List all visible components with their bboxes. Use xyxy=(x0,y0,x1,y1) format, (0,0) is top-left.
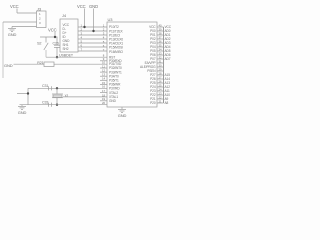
IC U3 right pin 32 P07 xyxy=(157,58,164,60)
svg-text:C26: C26 xyxy=(53,41,59,45)
wire VCC drop xyxy=(16,9,18,14)
wire caps join vertical xyxy=(27,88,29,104)
IC U3 right pin 27 P26 xyxy=(157,78,164,80)
IC U3 right pin 24 P23 xyxy=(157,90,164,92)
svg-text:GND: GND xyxy=(109,99,117,103)
wire GND to R21 xyxy=(14,63,45,65)
wire U3 GND pin 20 xyxy=(121,107,123,109)
IC U3 right pin 40 VCC xyxy=(157,26,164,28)
svg-text:VCC: VCC xyxy=(10,4,19,9)
IC U3 right pin 31 EA/VPP xyxy=(157,62,164,64)
IC U3 right pin 25 P24 xyxy=(157,86,164,88)
connector J4 body xyxy=(60,19,78,52)
svg-text:P20: P20 xyxy=(150,101,156,105)
IC U3 right pin 22 P21 xyxy=(157,98,164,100)
IC U3 right pin 30 ALE/PROG xyxy=(157,66,164,68)
junction (gnd branch) xyxy=(27,92,29,94)
wire XTAL2 row xyxy=(28,87,107,89)
svg-text:GND: GND xyxy=(118,113,127,118)
IC U3 left pin 17 XTAL2 xyxy=(100,92,107,94)
svg-text:A8: A8 xyxy=(165,101,169,105)
IC U3 left pin 9 P30/RXD xyxy=(100,60,107,62)
junction (crystal bottom) xyxy=(56,104,58,106)
ground (J3) xyxy=(8,29,16,32)
junction (VCC / J4) xyxy=(83,26,85,28)
svg-text:SH2: SH2 xyxy=(63,47,69,51)
svg-text:AD7: AD7 xyxy=(165,57,171,61)
IC U3 right pin 29 PSEN xyxy=(157,70,164,72)
IC U3 right pin 37 P02 xyxy=(157,38,164,40)
wire drop to ground (J3) xyxy=(11,27,13,29)
junction (VCC / reset top) xyxy=(54,36,56,38)
svg-text:S2: S2 xyxy=(37,42,41,46)
junction (RST node) xyxy=(56,56,58,58)
svg-text:VCC: VCC xyxy=(77,4,86,9)
IC U3 right pin 33 P06 xyxy=(157,54,164,56)
connector J3 body xyxy=(37,11,47,28)
IC U3 left pin 11 P32/INT0 xyxy=(100,67,107,69)
crystal X1 xyxy=(56,88,58,94)
IC U3 left pin 15 P36/WR xyxy=(100,83,107,85)
svg-text:GND: GND xyxy=(4,63,13,68)
IC U3 right pin 26 P25 xyxy=(157,82,164,84)
svg-text:U3: U3 xyxy=(108,17,114,22)
IC U3 right pin 39 P00 xyxy=(157,30,164,32)
IC U3 right pin 28 P27 xyxy=(157,74,164,76)
junction (crystal top) xyxy=(56,87,58,89)
wire to J3 pin 3 xyxy=(12,26,37,28)
wire gnd branch xyxy=(17,93,28,95)
wire VCC to J4 row 1 xyxy=(84,9,86,28)
IC U3 left pin 14 P35/T1 xyxy=(100,79,107,81)
IC U3 right pin 36 P03 xyxy=(157,42,164,44)
IC U3 right pin 34 P05 xyxy=(157,50,164,52)
wire to J3 pin 1 xyxy=(17,12,37,14)
wire C33/ground row xyxy=(20,104,108,106)
wire VCC drop (reset) xyxy=(54,32,56,37)
svg-text:USBDET: USBDET xyxy=(59,53,74,57)
wire GND to J4 row 2 xyxy=(93,9,95,32)
ground (crystal) xyxy=(21,105,23,107)
svg-text:C31: C31 xyxy=(42,84,48,88)
bus (right of U3) xyxy=(163,27,165,103)
svg-text:P16/MISO: P16/MISO xyxy=(109,50,124,54)
svg-text:GND: GND xyxy=(89,4,98,9)
IC U3 left pin 12 P33/INT1 xyxy=(100,71,107,73)
IC U3 right pin 23 P22 xyxy=(157,94,164,96)
wire R21 to U3 (row 10) xyxy=(54,63,107,65)
ground (U3) xyxy=(118,110,126,113)
svg-text:GND: GND xyxy=(8,32,17,37)
svg-text:R21: R21 xyxy=(37,61,43,65)
svg-text:20: 20 xyxy=(102,101,106,105)
IC U3 body xyxy=(107,22,157,107)
wire to J3 pin 2 xyxy=(3,21,37,23)
svg-text:GND: GND xyxy=(18,110,27,115)
IC U3 right pin 38 P01 xyxy=(157,34,164,36)
junction (GND / J4) xyxy=(92,30,94,32)
IC U3 left pin 13 P34/T0 xyxy=(100,75,107,77)
svg-text:VCC: VCC xyxy=(48,28,57,33)
wire GND net vertical (left edge) xyxy=(2,22,4,78)
svg-text:X1: X1 xyxy=(65,94,69,98)
wire XTAL1 row xyxy=(63,96,107,98)
svg-text:21: 21 xyxy=(158,99,162,103)
IC U3 right pin 35 P04 xyxy=(157,46,164,48)
wire RST to U3 (row 8) xyxy=(46,56,107,58)
svg-text:C33: C33 xyxy=(42,101,48,105)
IC U3 left pin 19 GND xyxy=(100,100,107,102)
wire reset top xyxy=(40,36,58,38)
IC U3 right pin 21 P20 xyxy=(157,102,164,104)
